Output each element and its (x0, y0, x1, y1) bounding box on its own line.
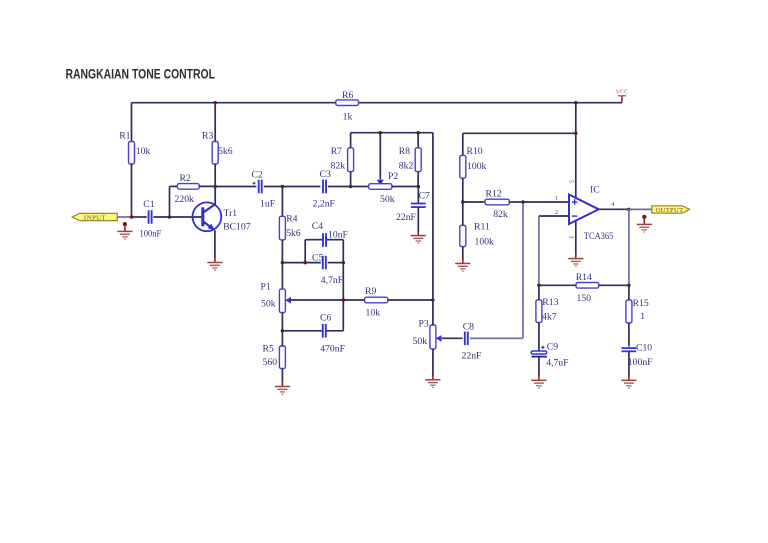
svg-text:R14: R14 (576, 272, 592, 283)
wire R5 bottom (281, 369, 283, 383)
label C4 (312, 221, 323, 232)
label Tr1 (224, 208, 238, 219)
label R2 (180, 173, 191, 184)
label R14 (576, 272, 592, 283)
wire P1node to R5 (281, 331, 283, 346)
svg-text:R6: R6 (342, 90, 353, 101)
resistor R7 (348, 148, 354, 172)
svg-text:470nF: 470nF (320, 343, 345, 354)
svg-text:C7: C7 (419, 191, 430, 202)
connector OUTPUT (652, 206, 690, 214)
label R13 (542, 297, 558, 308)
value 10nF (328, 229, 349, 240)
svg-text:R7: R7 (331, 146, 342, 157)
label C8 (463, 322, 474, 333)
resistor R4 (279, 216, 285, 240)
svg-text:RANGKAIAN TONE CONTROL: RANGKAIAN TONE CONTROL (66, 66, 216, 82)
value 82k of R12 (493, 209, 508, 220)
wire C5 row right (328, 262, 344, 264)
wire bass sub-rail (351, 132, 433, 134)
node collector junction (213, 185, 217, 189)
svg-text:50k: 50k (261, 298, 276, 309)
wire R7 bottom stub (350, 172, 352, 187)
svg-text:INPUT: INPUT (84, 215, 106, 222)
ground under op-amp (568, 253, 583, 266)
wire R7 node to P2 (351, 186, 369, 188)
value 1 of R15 (640, 311, 645, 322)
wire R1 bottom (131, 164, 133, 217)
svg-text:8k2: 8k2 (399, 160, 414, 171)
wire C7 top (417, 187, 419, 204)
resistor R15 (626, 300, 632, 323)
svg-text:50k: 50k (380, 194, 395, 205)
wire VCC drop (575, 103, 577, 199)
label P3 (419, 318, 429, 329)
svg-text:82k: 82k (331, 160, 346, 171)
label R9 (365, 286, 376, 297)
svg-text:82k: 82k (493, 209, 508, 220)
value 560 (263, 357, 278, 368)
wire C5 row left (282, 262, 321, 264)
node input-R1 junction (130, 215, 134, 219)
capacitor C4 (323, 233, 326, 247)
resistor R13 (536, 300, 542, 323)
value 5k6 (218, 146, 233, 157)
wire P1 bottom (281, 313, 283, 331)
wire collector to C2 (215, 186, 256, 188)
wire P3 top (432, 300, 434, 325)
pin number 1 (555, 196, 558, 202)
wire C6 row right (326, 300, 343, 331)
resistor R2 (177, 184, 199, 190)
wire R3 bottom (214, 164, 216, 187)
node R4-P1-C5 junction (281, 261, 285, 265)
wire R9 to P3 (388, 299, 433, 301)
ground near input (117, 222, 132, 239)
resistor R1 (129, 142, 135, 165)
wire R2 right (199, 185, 215, 187)
svg-text:IC: IC (590, 184, 600, 195)
svg-text:220k: 220k (175, 194, 195, 205)
svg-text:R5: R5 (263, 343, 274, 354)
node R12-feedback junction (521, 200, 525, 204)
wire C5row down to R9 row (342, 263, 344, 300)
wire R14 right (599, 284, 629, 286)
svg-text:10nF: 10nF (328, 229, 349, 240)
wire R7 top stub (350, 133, 352, 148)
value 1k (343, 111, 353, 122)
value 10k (136, 146, 151, 157)
value 100nF of C10 (628, 357, 653, 368)
node rail-VCC-drop junction (574, 101, 578, 105)
resistor R9 (365, 297, 388, 303)
svg-text:5: 5 (568, 180, 574, 183)
connector INPUT (72, 213, 117, 221)
svg-text:22nF: 22nF (462, 350, 483, 361)
svg-text:OUTPUT: OUTPUT (656, 207, 684, 214)
wire input to C1 (132, 216, 147, 218)
wire pin3 (575, 221, 577, 254)
node R9-P3 junction (431, 298, 435, 302)
node P1-C6-R5 junction (281, 329, 285, 333)
node R7-bottom junction (349, 185, 353, 189)
svg-text:R4: R4 (286, 213, 297, 224)
svg-text:C5: C5 (312, 253, 323, 264)
svg-text:1: 1 (555, 196, 558, 202)
svg-text:R3: R3 (202, 131, 213, 142)
capacitor C6 (323, 324, 326, 338)
svg-text:BC107: BC107 (223, 222, 251, 233)
svg-text:5k6: 5k6 (218, 146, 233, 157)
node subrail-R8 junction (416, 131, 420, 135)
svg-text:10k: 10k (366, 307, 381, 318)
svg-text:10k: 10k (136, 146, 151, 157)
label R4 (286, 213, 297, 224)
pin number 5 (568, 180, 574, 183)
ground under C7 (411, 231, 426, 243)
op-amp U1 TCA365 (569, 195, 599, 225)
arrow P1 wiper (285, 297, 291, 304)
ground under P3 (425, 374, 440, 387)
svg-text:5k6: 5k6 (286, 228, 301, 239)
node C6-vert-R9 junction (342, 298, 346, 302)
pin number 4 (612, 202, 615, 208)
label C6 (320, 312, 331, 323)
svg-text:C3: C3 (320, 169, 331, 180)
value 50k of P1 (261, 298, 276, 309)
value 4,7nF (321, 275, 344, 286)
wire output drop (628, 209, 630, 285)
node subrail-P2-wiper junction (379, 131, 383, 135)
wire C4 loop left (305, 240, 322, 263)
wire R4 bottom (281, 240, 283, 263)
svg-text:VCC: VCC (616, 89, 629, 96)
wire P3 wiper to C8 (442, 337, 463, 339)
value 4k7 (542, 311, 557, 322)
wire output to connector (629, 208, 652, 210)
label P1 (261, 282, 271, 293)
potentiometer P3 (430, 325, 436, 349)
value 4,7uF (546, 358, 569, 369)
value 5k6 of R4 (286, 228, 301, 239)
wire C3 to R7 node (328, 186, 351, 188)
wire P2 wiper vertical (379, 133, 381, 180)
svg-text:1k: 1k (343, 111, 353, 122)
label R5 (263, 343, 274, 354)
potentiometer P2 (369, 184, 392, 190)
wire C10 bottom (628, 351, 630, 376)
pin number 3 (568, 236, 574, 239)
node C2-R4-C3 junction (281, 185, 285, 189)
node R13-R14 junction (537, 284, 541, 288)
wire R15 top (628, 285, 630, 300)
wire C6 row left (282, 330, 322, 332)
wire R11 top (462, 202, 464, 225)
wire R10 bottom (462, 178, 464, 202)
wire R4 top (281, 187, 283, 217)
capacitor C8 (465, 332, 468, 346)
ground under R5 (275, 381, 290, 394)
svg-text:P3: P3 (419, 318, 429, 329)
wire R2 left vertical (170, 186, 178, 217)
ground under R11 (455, 258, 470, 271)
wire P1 top (281, 263, 283, 290)
wire R13 bottom (538, 323, 540, 352)
label R7 (331, 146, 342, 157)
svg-text:TCA365: TCA365 (584, 231, 614, 242)
arrow P3 wiper (436, 335, 442, 342)
svg-text:R11: R11 (474, 222, 490, 233)
value 220k (175, 194, 195, 205)
node R8-C7 junction (417, 185, 421, 189)
resistor R10 (460, 155, 466, 178)
wire C1 to base node (153, 216, 169, 218)
label C9 (547, 342, 558, 353)
ground under transistor (207, 256, 222, 270)
svg-text:4,7uF: 4,7uF (546, 358, 569, 369)
value 50k of P3 (413, 336, 428, 347)
node R10-R11-R12 junction (461, 200, 465, 204)
svg-text:100k: 100k (475, 236, 495, 247)
wire R15 bottom (628, 323, 630, 347)
label C1 (143, 199, 154, 210)
svg-text:C6: C6 (320, 312, 331, 323)
wire C4 loop right (327, 240, 344, 263)
label R6 (342, 90, 353, 101)
node netB junction (574, 132, 578, 136)
svg-text:150: 150 (577, 293, 592, 304)
label C7 (419, 191, 430, 202)
node C4-left junction (303, 261, 307, 265)
label C2 (252, 169, 263, 180)
capacitor C1 (149, 210, 152, 224)
svg-text:R10: R10 (467, 146, 483, 157)
svg-text:R13: R13 (542, 297, 558, 308)
wire P1 wiper to R9 (291, 299, 365, 301)
value 22nF (396, 212, 417, 223)
capacitor C3 (323, 180, 326, 194)
svg-text:2: 2 (555, 210, 558, 216)
ground under C10 (621, 375, 636, 388)
wire R10 top stub (462, 133, 464, 155)
wire R13 top (538, 285, 540, 300)
svg-text:3: 3 (568, 236, 574, 239)
wire pin1 (523, 201, 569, 203)
value 100nF (140, 229, 162, 240)
label BC107 (223, 222, 251, 233)
wire R11 bottom (462, 247, 464, 260)
value 2,2nF (313, 198, 336, 209)
svg-text:100nF: 100nF (140, 229, 162, 240)
value 100k of R10 (467, 161, 487, 172)
label R3 (202, 131, 213, 142)
potentiometer P1 (279, 289, 285, 313)
svg-text:50k: 50k (413, 336, 428, 347)
svg-text:C10: C10 (636, 342, 652, 353)
resistor R3 (212, 142, 218, 165)
value 82k (331, 160, 346, 171)
svg-text:C4: C4 (312, 221, 323, 232)
wire R1 top (131, 103, 133, 142)
svg-text:R12: R12 (486, 189, 502, 200)
wire node to C3 (282, 186, 320, 188)
wire C2 to node (264, 186, 283, 188)
svg-text:C2: C2 (252, 169, 263, 180)
wire R10 rail (463, 132, 576, 134)
wire pin2 (539, 215, 569, 217)
capacitor C2 (259, 180, 262, 194)
wire C7 bottom (417, 207, 419, 232)
label TCA365 (584, 231, 614, 242)
wire emitter vertical (214, 230, 216, 257)
wire feedback riser (522, 202, 524, 338)
svg-text:2,2nF: 2,2nF (313, 198, 336, 209)
svg-text:560: 560 (263, 357, 278, 368)
transistor Q1 Tr1 BC107 (193, 202, 222, 231)
value 150 (577, 293, 592, 304)
svg-text:1: 1 (640, 311, 645, 322)
wire R8 top stub (417, 133, 419, 148)
wire top rail right segment (359, 102, 623, 104)
wire C8 to feedback riser (470, 337, 523, 339)
wire P3 bottom (432, 349, 434, 376)
svg-text:P2: P2 (388, 171, 398, 182)
wire R12 to pin1 node (509, 201, 523, 203)
value 50k of P2 (380, 194, 395, 205)
label R11 (474, 222, 490, 233)
label IC (590, 184, 600, 195)
wire top rail left segment (132, 102, 336, 104)
svg-text:R9: R9 (365, 286, 376, 297)
wire output (599, 208, 629, 210)
svg-text:C1: C1 (143, 199, 154, 210)
svg-text:22nF: 22nF (396, 212, 417, 223)
capacitor C9 (531, 346, 547, 357)
value 10k of R9 (366, 307, 381, 318)
label C10 (636, 342, 652, 353)
node rail-R3 junction (213, 101, 217, 105)
svg-text:C9: C9 (547, 342, 558, 353)
resistor R6 (336, 100, 359, 106)
ground under C9 (531, 375, 546, 388)
value 470nF (320, 343, 345, 354)
svg-text:R15: R15 (633, 298, 649, 309)
value 8k2 (399, 160, 414, 171)
svg-text:R2: R2 (180, 173, 191, 184)
capacitor C7 (411, 204, 426, 208)
svg-text:4: 4 (612, 202, 615, 208)
node base junction (168, 215, 172, 219)
value 100k of R11 (475, 236, 495, 247)
resistor R8 (415, 148, 421, 172)
wire C9 bottom (538, 357, 540, 376)
svg-text:4,7nF: 4,7nF (321, 275, 344, 286)
svg-text:100nF: 100nF (628, 357, 653, 368)
wire collector vertical (214, 187, 216, 206)
resistor R14 (576, 283, 599, 289)
label P2 (388, 171, 398, 182)
label R8 (399, 146, 410, 157)
svg-text:R8: R8 (399, 146, 410, 157)
wire R3 top (214, 103, 216, 142)
label C5 (312, 253, 323, 264)
wire P2 to R8 node (392, 186, 418, 188)
label R1 (119, 131, 130, 142)
capacitor C5 (323, 256, 326, 270)
title text (66, 66, 216, 82)
power VCC symbol (616, 89, 629, 103)
label R10 (467, 146, 483, 157)
svg-text:4k7: 4k7 (542, 311, 557, 322)
svg-text:100k: 100k (467, 161, 487, 172)
node output junction (627, 208, 631, 212)
label R15 (633, 298, 649, 309)
svg-text:C8: C8 (463, 322, 474, 333)
ground near output (637, 215, 652, 232)
label R12 (486, 189, 502, 200)
wire pin2 drop (538, 216, 540, 285)
pin number 2 (555, 210, 558, 216)
resistor R12 (485, 199, 509, 205)
arrow P2 wiper (377, 180, 384, 186)
node R14-R15 junction (627, 284, 631, 288)
wire base node to transistor (170, 216, 203, 218)
resistor R11 (460, 225, 466, 246)
wire R14 left (539, 284, 576, 286)
value 1uF (260, 198, 276, 209)
wire node to R12 (463, 201, 485, 203)
wire R8 bottom stub (417, 172, 419, 187)
svg-text:1uF: 1uF (260, 198, 276, 209)
resistor R5 (279, 346, 285, 369)
value 22nF of C8 (462, 350, 483, 361)
wire subrail down to P3 (432, 133, 434, 300)
svg-text:P1: P1 (261, 282, 271, 293)
node C4-right junction (342, 261, 346, 265)
svg-text:Tr1: Tr1 (224, 208, 238, 219)
svg-text:R1: R1 (119, 131, 130, 142)
polarity + of C2 (253, 182, 256, 185)
wire input stub (117, 216, 131, 218)
label C3 (320, 169, 331, 180)
capacitor C10 (622, 348, 637, 351)
